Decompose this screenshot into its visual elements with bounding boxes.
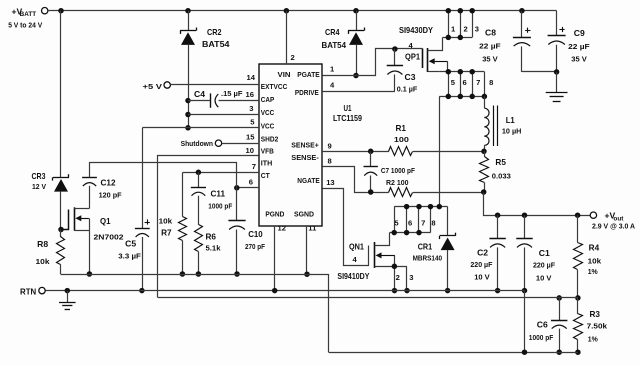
- svg-text:7: 7: [476, 78, 480, 87]
- node U1 right pin labels: [265, 70, 319, 218]
- node junction L1-R5-SENSE+: [481, 149, 487, 155]
- svg-text:BAT54: BAT54: [322, 41, 347, 50]
- wire +VBATT top rail: [48, 10, 557, 12]
- node junction SENSE- C7: [368, 189, 374, 195]
- svg-text:3: 3: [249, 104, 253, 113]
- svg-text:16: 16: [246, 90, 254, 99]
- svg-text:3: 3: [409, 273, 413, 282]
- ground symbol below C9: [546, 72, 568, 102]
- capacitor C1 220 uF 10 V: [516, 215, 555, 290]
- svg-text:C4: C4: [194, 90, 206, 99]
- svg-text:QN1: QN1: [349, 242, 364, 251]
- svg-text:5 V to 24 V: 5 V to 24 V: [8, 20, 42, 29]
- wire CR1 anode to RTN rail: [447, 250, 449, 291]
- svg-text:BATT: BATT: [20, 11, 37, 18]
- svg-text:1000 pF: 1000 pF: [529, 333, 554, 342]
- node junction R6 ground: [196, 271, 202, 277]
- op-amp U1 LTC1159 controller box: [259, 64, 362, 226]
- svg-text:220 µF: 220 µF: [533, 261, 555, 270]
- node QP1 pins 1 2 3 to rail: [443, 8, 480, 40]
- svg-text:10 V: 10 V: [474, 273, 490, 282]
- svg-text:22 µF: 22 µF: [568, 42, 590, 51]
- svg-text:C8: C8: [485, 29, 497, 38]
- wire RTN rail: [45, 290, 524, 292]
- node junction CR2-CAP line: [185, 98, 191, 104]
- wire VCC pin 5: [142, 127, 259, 129]
- wire Q1 drain to CT node: [90, 163, 237, 188]
- resistor R5 0.033: [480, 151, 511, 192]
- svg-text:CT: CT: [261, 171, 270, 180]
- wire CR3 branch from top rail: [60, 11, 62, 178]
- wire SENSE+ pin 9 left: [322, 151, 389, 153]
- wire CR2 anode down to VCC lines: [188, 45, 190, 128]
- wire CR2 cathode from top rail: [188, 11, 190, 31]
- transistor Q1 2N7002: [61, 207, 124, 241]
- svg-text:SI9410DY: SI9410DY: [337, 272, 370, 281]
- svg-text:R3: R3: [590, 310, 601, 319]
- svg-text:10k: 10k: [159, 216, 173, 225]
- svg-text:7: 7: [421, 218, 425, 227]
- wire NGATE pin 13: [323, 189, 369, 266]
- svg-text:+5 V: +5 V: [143, 82, 164, 91]
- svg-text:10: 10: [246, 146, 254, 155]
- svg-text:10k: 10k: [36, 257, 51, 266]
- wire CAP pin 16 right segment: [219, 100, 259, 102]
- svg-text:R7: R7: [161, 229, 172, 238]
- capacitor C5 3.3 uF: [118, 219, 150, 290]
- node +5V terminal: [143, 82, 171, 91]
- svg-text:CR3: CR3: [32, 172, 46, 181]
- svg-text:C2: C2: [477, 249, 489, 258]
- wire switch node QP1 to QN1: [439, 96, 441, 206]
- node junction C5-RTN: [139, 288, 145, 294]
- wire SHD2 pin 15: [222, 143, 259, 145]
- svg-text:LTC1159: LTC1159: [333, 114, 362, 123]
- svg-text:14: 14: [247, 73, 256, 82]
- svg-text:PGATE: PGATE: [297, 70, 319, 79]
- svg-text:R6: R6: [206, 232, 217, 241]
- node QP1 pins 5 6 7 8 switch bus: [439, 69, 493, 99]
- node junction CR3 on top rail: [58, 8, 64, 14]
- wire SENSE- pin 8: [323, 167, 389, 193]
- svg-text:VCC: VCC: [261, 108, 275, 117]
- svg-text:2.9 V @ 3.0 A: 2.9 V @ 3.0 A: [592, 221, 635, 230]
- capacitor C3 0.1 uF: [387, 49, 418, 94]
- svg-text:SI9430DY: SI9430DY: [399, 26, 434, 35]
- svg-text:7: 7: [252, 162, 256, 171]
- node junction CR2 on top rail: [185, 8, 191, 14]
- node junction C2-RTN: [495, 288, 501, 294]
- node junction C10 ground: [234, 271, 240, 277]
- wire switch bus to CR1: [447, 207, 449, 236]
- svg-text:6: 6: [462, 78, 466, 87]
- node junction C1-RTN: [522, 288, 528, 294]
- wire R2 to R5 bottom node: [413, 192, 484, 194]
- node junction ITH-C11: [196, 170, 202, 176]
- node junction Q1 source ground: [87, 271, 93, 277]
- resistor R7 10k: [159, 173, 187, 275]
- node +VBATT input terminal: [8, 7, 48, 30]
- wire PDRIVE pin 4: [322, 91, 395, 93]
- svg-text:PGND: PGND: [265, 209, 285, 218]
- svg-text:1%: 1%: [588, 335, 599, 344]
- svg-text:C6: C6: [537, 321, 549, 330]
- svg-text:10 V: 10 V: [536, 274, 552, 283]
- transistor QN1 SI9410DY N-channel: [337, 233, 406, 281]
- svg-text:QP1: QP1: [405, 53, 420, 62]
- svg-text:C10: C10: [248, 230, 263, 239]
- node junction CT-C10: [234, 185, 240, 191]
- svg-text:C12: C12: [101, 179, 116, 188]
- node junction SENSE+ C7: [368, 149, 374, 155]
- ground symbol at RTN: [59, 291, 76, 310]
- svg-text:SENSE-: SENSE-: [291, 153, 319, 162]
- svg-text:8: 8: [328, 156, 332, 165]
- resistor R2 100: [386, 178, 413, 196]
- svg-text:CAP: CAP: [261, 95, 275, 104]
- node junction VIN pin 2 on top rail: [284, 8, 290, 14]
- capacitor C2 220 uF 10 V: [470, 215, 505, 290]
- svg-text:U1: U1: [344, 104, 352, 113]
- resistor R4 10k 1%: [574, 215, 602, 298]
- svg-text:15: 15: [246, 133, 255, 142]
- wire PGND pin 12: [274, 226, 276, 291]
- svg-text:SENSE+: SENSE+: [291, 141, 319, 150]
- svg-text:0.033: 0.033: [492, 171, 511, 180]
- svg-text:270 pF: 270 pF: [245, 242, 265, 251]
- diode CR1 MBRS140: [413, 233, 456, 263]
- svg-text:2: 2: [396, 273, 400, 282]
- node QN1 pins 5 6 7 8 drain bus: [390, 204, 448, 236]
- node junction PGATE-C3 gate node: [392, 46, 398, 52]
- node junction R7 ground: [180, 271, 186, 277]
- svg-text:6: 6: [249, 177, 253, 186]
- svg-text:22 µF: 22 µF: [479, 42, 501, 51]
- svg-text:220 µF: 220 µF: [470, 260, 492, 269]
- svg-text:5.1k: 5.1k: [206, 244, 222, 253]
- wire Q1 source to analog ground: [89, 230, 91, 274]
- capacitor C12 120 pF: [82, 162, 122, 200]
- wire CR3 anode to gate node: [60, 192, 62, 230]
- wire PGATE pin 1: [323, 49, 423, 76]
- svg-text:VIN: VIN: [278, 70, 291, 79]
- node junction PGND-RTN: [272, 288, 278, 294]
- wire analog ground rail: [61, 275, 329, 353]
- inductor L1 10 uH: [484, 96, 521, 151]
- svg-text:2: 2: [291, 53, 295, 62]
- node QN1 pins 2 3 source: [392, 264, 414, 294]
- svg-text:R8: R8: [37, 240, 49, 249]
- svg-text:PDRIVE: PDRIVE: [295, 88, 319, 97]
- wire VCC pin 3: [188, 114, 259, 116]
- node junction R3 bottom: [575, 349, 581, 355]
- svg-text:12: 12: [278, 224, 286, 233]
- svg-text:CR4: CR4: [325, 28, 340, 37]
- svg-text:R1: R1: [396, 124, 407, 133]
- node U1 pin numbers right and top: [278, 53, 336, 233]
- resistor R1 100: [389, 124, 413, 156]
- capacitor C11 1000 pF: [191, 172, 233, 210]
- svg-text:SGND: SGND: [294, 209, 315, 218]
- node gate node junction CR3-R8-Q1: [58, 227, 64, 233]
- svg-text:C1: C1: [539, 249, 551, 258]
- svg-text:2N7002: 2N7002: [94, 233, 124, 242]
- svg-text:6: 6: [408, 218, 412, 227]
- wire CT pin 6: [237, 187, 259, 189]
- svg-text:EXTVCC: EXTVCC: [261, 82, 288, 91]
- wire CR4 cathode from top rail: [356, 11, 358, 31]
- node +Vout output terminal: [590, 211, 635, 231]
- svg-text:R4: R4: [589, 244, 600, 253]
- wire ITH pin 7: [182, 172, 259, 174]
- wire Q1 drain up to C12: [89, 186, 91, 209]
- node junction C1 on Vout rail: [522, 212, 528, 218]
- wire CT node down to C10: [236, 188, 238, 221]
- svg-text:1000 pF: 1000 pF: [208, 201, 232, 210]
- node junction CR2-VCC pin3 line: [185, 112, 191, 118]
- node junction R5-SENSE- Vout: [481, 189, 487, 195]
- node U1 left pin labels: [261, 82, 288, 180]
- svg-text:VCC: VCC: [261, 122, 275, 131]
- svg-text:C5: C5: [125, 239, 137, 248]
- svg-text:CR2: CR2: [207, 28, 222, 37]
- svg-text:35 V: 35 V: [571, 55, 587, 64]
- wire R5 to Vout rail: [484, 193, 591, 216]
- node junction CR4 on top rail: [353, 8, 359, 14]
- capacitor C8 22 uF 35 V: [479, 11, 531, 72]
- svg-text:NGATE: NGATE: [297, 176, 319, 185]
- wire VFB feedback rail: [158, 297, 578, 299]
- svg-text:SHD2: SHD2: [261, 135, 279, 144]
- node Shutdown terminal: [181, 139, 222, 148]
- svg-text:C11: C11: [211, 190, 226, 199]
- svg-text:8: 8: [489, 78, 493, 87]
- svg-text:8: 8: [431, 218, 435, 227]
- svg-text:VFB: VFB: [261, 146, 275, 155]
- node junction RTN drop on bottom rail: [522, 349, 528, 355]
- transistor QP1 SI9430DY P-channel: [399, 26, 448, 72]
- node junction C2 on Vout rail: [495, 212, 501, 218]
- svg-text:10 µH: 10 µH: [502, 127, 522, 136]
- svg-text:RTN: RTN: [20, 287, 36, 296]
- svg-text:Shutdown: Shutdown: [181, 139, 214, 148]
- svg-text:100: 100: [394, 135, 409, 144]
- node junction CR4-PGATE: [353, 73, 359, 79]
- capacitor C6 1000 pF: [529, 298, 568, 352]
- capacitor C9 22 uF 35 V: [548, 11, 590, 72]
- svg-text:0.1 µF: 0.1 µF: [397, 85, 418, 94]
- svg-text:L1: L1: [506, 116, 515, 125]
- svg-text:11: 11: [308, 224, 317, 233]
- wire VFB pin 10: [158, 156, 259, 298]
- wire SGND pin 11: [306, 226, 308, 274]
- svg-text:3: 3: [475, 25, 479, 34]
- svg-text:MBRS140: MBRS140: [413, 254, 443, 263]
- node junction C6 top: [556, 295, 562, 301]
- svg-text:1%: 1%: [588, 267, 599, 276]
- diode CR3 12 V zener: [32, 172, 70, 192]
- wire RTN drop to analog ground rail: [524, 291, 526, 353]
- resistor R3 7.50k 1%: [574, 298, 608, 352]
- wire CAP pin 16 left segment: [188, 100, 210, 102]
- capacitor C7 1000 pF: [364, 151, 416, 192]
- node junction CR1-RTN: [445, 288, 451, 294]
- wire VIN pin 2: [286, 11, 288, 64]
- svg-text:Q1: Q1: [100, 217, 111, 226]
- svg-text:C7 1000 pF: C7 1000 pF: [381, 166, 415, 175]
- node junction R4-R3-VFB: [575, 295, 581, 301]
- svg-text:12 V: 12 V: [32, 182, 47, 191]
- node junction C6 bottom: [556, 349, 562, 355]
- node junction R4 on Vout rail: [575, 212, 581, 218]
- wire C8 bottom to C9 bottom: [522, 71, 557, 73]
- wire bottom analog ground rail: [329, 352, 578, 354]
- svg-text:ITH: ITH: [261, 158, 273, 167]
- resistor R6 5.1k: [195, 196, 222, 274]
- node junction C8 on top rail: [519, 8, 525, 14]
- node junction C8-C9 ground: [554, 69, 560, 75]
- node U1 pin numbers left: [246, 73, 256, 186]
- wire CR4 anode down to PGATE line: [356, 45, 358, 76]
- svg-text:C3: C3: [405, 73, 417, 82]
- svg-text:C9: C9: [574, 29, 586, 38]
- svg-text:10k: 10k: [588, 257, 602, 266]
- node junction RTN ground symbol: [65, 288, 71, 294]
- svg-text:120 pF: 120 pF: [99, 191, 122, 200]
- svg-text:.15 µF: .15 µF: [221, 89, 243, 98]
- resistor R8 10k: [36, 230, 65, 275]
- capacitor C10 270 pF: [228, 221, 265, 275]
- svg-text:R2 100: R2 100: [386, 178, 409, 187]
- wire EXTVCC pin 14: [171, 84, 260, 86]
- node junction SGND-analog ground: [304, 271, 310, 277]
- diode CR2 BAT54: [180, 28, 230, 50]
- svg-text:R5: R5: [495, 158, 506, 167]
- diode CR4 BAT54: [322, 28, 365, 51]
- svg-text:35 V: 35 V: [482, 55, 498, 64]
- svg-text:9: 9: [328, 141, 332, 150]
- svg-text:BAT54: BAT54: [202, 40, 230, 49]
- svg-text:2: 2: [463, 25, 467, 34]
- svg-text:7.50k: 7.50k: [587, 322, 608, 331]
- svg-text:CR1: CR1: [418, 242, 433, 251]
- svg-text:13: 13: [326, 178, 334, 187]
- wire VCC pin5 corner down to C5: [142, 128, 144, 229]
- node junction CR2-VCC pin5 line: [185, 125, 191, 131]
- wire SENSE+ to L1-R5 node: [413, 151, 484, 153]
- node RTN terminal: [20, 287, 45, 296]
- svg-text:3.3 µF: 3.3 µF: [118, 251, 141, 260]
- capacitor C4 .15 uF: [194, 89, 243, 108]
